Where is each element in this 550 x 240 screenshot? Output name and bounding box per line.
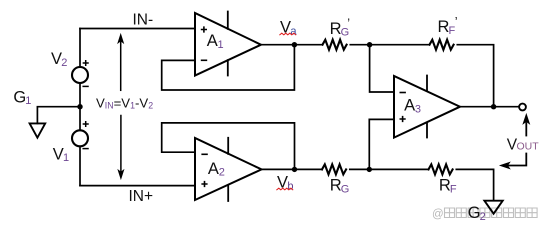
wire A3 inverting input branch — [370, 45, 394, 92]
wire RF' to right corner and down to output node — [457, 45, 493, 107]
wire A3 non-inverting input branch — [369, 119, 394, 169]
source V2 — [72, 67, 88, 83]
node Vb junction dot — [292, 167, 297, 172]
resistor RF' — [430, 40, 454, 50]
wire A1 feedback loop — [162, 45, 295, 90]
ground G2 — [484, 201, 502, 214]
wire Vb rail A2 output to RG — [262, 168, 323, 170]
wire A2 feedback loop — [162, 123, 295, 169]
node Va junction dot — [292, 42, 297, 47]
svg-text:1: 1 — [25, 95, 31, 107]
wire IN+ bottom rail — [80, 185, 195, 187]
svg-text:A: A — [404, 97, 415, 115]
node RG'/RF'/A3- junction dot — [367, 42, 372, 47]
svg-text:2: 2 — [61, 57, 67, 69]
wire RF to right corner and down to G2 — [456, 169, 493, 199]
arrow VIN down — [120, 116, 122, 173]
svg-text:IN+: IN+ — [129, 188, 154, 205]
wire RG' to mid node — [350, 44, 369, 46]
svg-text:VIN=V1-V2: VIN=V1-V2 — [96, 95, 153, 110]
wire mid node to RF — [369, 168, 428, 170]
svg-text:’: ’ — [347, 17, 350, 31]
op-amp A1 — [195, 12, 261, 76]
svg-text:2: 2 — [219, 167, 225, 179]
wire V2 bottom to V1 top — [79, 83, 81, 130]
resistor RG' — [323, 40, 347, 50]
op-amp A2 — [195, 138, 262, 201]
resistor RF — [429, 164, 453, 174]
svg-text:a: a — [290, 26, 297, 38]
svg-text:2: 2 — [480, 211, 486, 223]
output terminal open circle — [519, 104, 526, 111]
arrow VIN up — [118, 35, 123, 179]
svg-text:’: ’ — [455, 15, 458, 29]
ground G1 — [30, 123, 46, 137]
wire V1 bottom to IN+ corner — [79, 146, 81, 185]
svg-text:G: G — [341, 184, 350, 196]
watermark — [432, 208, 537, 221]
resistor RG — [322, 164, 346, 174]
svg-text:@: @ — [432, 209, 444, 221]
svg-text:IN-: IN- — [133, 11, 154, 28]
node source/G1 junction dot — [77, 104, 82, 109]
svg-text:F: F — [450, 184, 457, 196]
svg-text:b: b — [287, 180, 293, 192]
node RG/RF/A3+ junction dot — [367, 167, 372, 172]
arrow VOUT up at terminal — [501, 115, 530, 169]
wire A3 output to terminal — [460, 106, 519, 108]
squiggle under Vb — [277, 188, 293, 190]
op-amp A3 — [394, 76, 460, 138]
wire Va rail A1 output to RG' — [261, 44, 323, 46]
svg-text:A: A — [207, 32, 218, 50]
svg-text:A: A — [208, 160, 219, 178]
wire G1 branch — [37, 107, 80, 124]
svg-text:1: 1 — [63, 152, 69, 164]
svg-text:OUT: OUT — [517, 141, 540, 153]
svg-text:3: 3 — [415, 103, 421, 115]
wire mid node to RF' — [370, 44, 430, 46]
wire V2 top to IN- rail — [79, 29, 81, 68]
svg-text:1: 1 — [218, 39, 224, 51]
source V1 — [72, 130, 88, 146]
squiggle under Va — [280, 33, 296, 35]
wire IN- top rail — [80, 28, 195, 30]
wire RG to mid node bottom — [350, 168, 370, 170]
node output junction dot — [491, 104, 496, 109]
arrow VOUT lower bracket — [508, 154, 527, 166]
